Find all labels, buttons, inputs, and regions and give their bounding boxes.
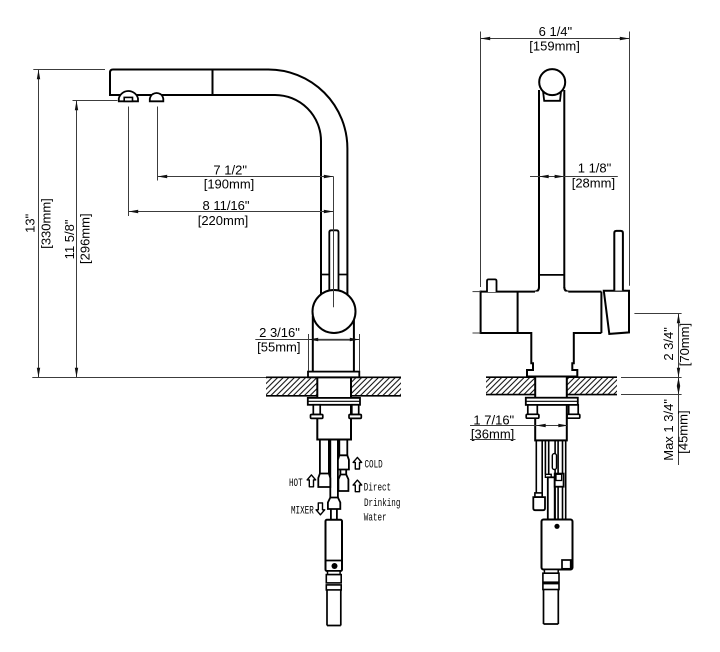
dim 7 1/2 line bbox=[158, 176, 334, 178]
hot hose fitting bbox=[318, 474, 330, 488]
dim 11 5/8 line bbox=[76, 101, 78, 378]
svg-text:[45mm]: [45mm] bbox=[676, 410, 691, 453]
left stud nut (front) bbox=[526, 414, 539, 418]
wand neck (front) bbox=[544, 570, 558, 574]
lower body and flange bbox=[527, 332, 577, 377]
dim 2 3/16 left arrow bbox=[309, 338, 319, 341]
svg-text:13": 13" bbox=[23, 213, 38, 232]
ext line 2 3/4 top bbox=[634, 313, 681, 315]
cold hose fitting bbox=[338, 455, 349, 469]
svg-text:[70mm]: [70mm] bbox=[677, 323, 692, 366]
mounting plates (front) bbox=[526, 398, 578, 405]
spout end ball bbox=[539, 69, 565, 95]
mixer fitting bbox=[328, 498, 340, 510]
dim 13in top arrow bbox=[37, 70, 40, 80]
ext line counter top right bbox=[621, 377, 682, 379]
dim 11 5/8 bottom arrow bbox=[75, 368, 78, 378]
wand tail hose (front) bbox=[544, 590, 559, 625]
mounting plates bbox=[308, 398, 360, 405]
band top line left bbox=[481, 291, 535, 293]
drinking water fitting bbox=[338, 475, 348, 492]
tube center extension line bbox=[333, 177, 335, 308]
dim 6 1/4 ext left bbox=[480, 32, 482, 288]
cross band fill bbox=[481, 292, 629, 333]
aerator bump 1 bbox=[119, 91, 138, 101]
body top seam bbox=[313, 339, 354, 341]
tube-to-body left fillet bbox=[535, 287, 540, 292]
right stud bbox=[352, 405, 359, 415]
left block knob bbox=[487, 279, 497, 292]
counter hatch right piece (front) bbox=[567, 377, 617, 394]
svg-text:1 1/8": 1 1/8" bbox=[578, 161, 612, 176]
counter bottom edge left (front) bbox=[486, 394, 535, 396]
counter hatch left piece bbox=[266, 377, 317, 396]
dim 6 1/4 left arrow bbox=[481, 37, 491, 40]
ball joint bbox=[313, 290, 356, 333]
dim 7 1/2 right arrow bbox=[324, 175, 334, 178]
dim 1 7/16 right arrow bbox=[558, 424, 568, 427]
right fitting notch bbox=[556, 474, 562, 480]
left block left edge bbox=[480, 291, 482, 334]
dim 7 1/2 left arrow bbox=[158, 175, 168, 178]
aerator bump 2 bbox=[150, 93, 164, 101]
dim 11 5/8 extension top bbox=[73, 100, 118, 102]
hose neck bbox=[328, 571, 341, 575]
dim 13in line bbox=[38, 70, 40, 378]
dim 1 7/16 line bbox=[470, 425, 568, 427]
handle joint line bbox=[600, 292, 602, 333]
left stud nut bbox=[311, 415, 323, 419]
plate seam bbox=[308, 400, 360, 402]
left stud bbox=[313, 405, 320, 415]
svg-text:MIXER: MIXER bbox=[291, 504, 314, 517]
handle rod bbox=[614, 231, 623, 291]
handle base bbox=[604, 291, 629, 334]
flange bbox=[308, 372, 359, 378]
dim 11 5/8 top arrow bbox=[75, 101, 78, 111]
svg-text:[159mm]: [159mm] bbox=[529, 39, 580, 54]
dim 1 1/8 right arrow bbox=[555, 175, 565, 178]
mixer hose right wall bbox=[337, 440, 339, 498]
svg-text:HOT: HOT bbox=[289, 477, 303, 490]
dim 1 1/8 tail left bbox=[530, 176, 539, 178]
counter bottom edge left bbox=[266, 395, 317, 397]
bracket bbox=[545, 474, 551, 477]
svg-text:Water: Water bbox=[364, 511, 387, 524]
right fitting lower hose bbox=[555, 487, 558, 520]
bump1 extension line bbox=[128, 107, 130, 217]
svg-text:Direct: Direct bbox=[364, 481, 391, 494]
hose body dot bbox=[332, 563, 338, 569]
shank and housing bbox=[317, 377, 351, 439]
svg-text:Max 1 3/4": Max 1 3/4" bbox=[661, 399, 676, 461]
dim max top arrow bbox=[677, 378, 680, 387]
left fitting cap bbox=[535, 493, 542, 497]
svg-text:[55mm]: [55mm] bbox=[257, 340, 300, 355]
dim 2 3/16 ext left bbox=[308, 334, 310, 371]
block joint line bbox=[517, 292, 519, 333]
dim 13in extension top bbox=[33, 69, 105, 71]
counter top edge bbox=[266, 376, 401, 378]
svg-text:[28mm]: [28mm] bbox=[572, 176, 615, 191]
dim 6 1/4 ext right bbox=[629, 32, 631, 286]
pull-out hose body (left view) bbox=[326, 520, 343, 571]
hose lines under shank bbox=[536, 440, 565, 519]
front tube right wall bbox=[563, 90, 565, 288]
front tube left wall bbox=[538, 90, 540, 288]
cold hose bbox=[339, 440, 347, 456]
dim 6 1/4 right arrow bbox=[620, 37, 630, 40]
svg-text:[296mm]: [296mm] bbox=[78, 213, 93, 264]
counter bottom edge right (front) bbox=[567, 394, 617, 396]
shank (front) bbox=[535, 377, 567, 441]
wand stem bbox=[548, 477, 555, 519]
dim 13in bottom arrow bbox=[37, 368, 40, 378]
tube seam left segment bbox=[321, 274, 329, 276]
spout head bbox=[110, 70, 213, 96]
svg-text:Drinking: Drinking bbox=[364, 497, 400, 510]
hose ring 1 bbox=[326, 575, 341, 583]
dim 8 11/16 right arrow bbox=[324, 210, 334, 213]
dim 36mm underline bbox=[470, 439, 516, 441]
bump2 extension line bbox=[157, 107, 159, 181]
dim 8 11/16 line bbox=[129, 211, 334, 213]
body left wall bbox=[312, 316, 314, 372]
dim 2 3/4 line bbox=[678, 314, 680, 378]
spout tube inner curve bbox=[213, 95, 322, 295]
right stud nut (front) bbox=[567, 414, 580, 418]
band bottom line left bbox=[481, 332, 532, 334]
hose body seam bbox=[326, 560, 343, 562]
dim max line bbox=[678, 378, 680, 466]
left stud (front) bbox=[528, 405, 538, 414]
dim 8 11/16 left arrow bbox=[129, 210, 139, 213]
svg-text:8 11/16": 8 11/16" bbox=[202, 198, 249, 213]
svg-text:COLD: COLD bbox=[365, 458, 383, 471]
counter top edge (front) bbox=[486, 376, 617, 378]
wand body (front) bbox=[542, 520, 573, 570]
hose tail bbox=[327, 590, 341, 626]
dim 6 1/4 line bbox=[481, 38, 630, 40]
dim 2 3/4 top arrow bbox=[677, 314, 680, 324]
label MIXER arrow bbox=[316, 503, 325, 515]
hose ring 2 bbox=[326, 585, 341, 590]
svg-text:11 5/8": 11 5/8" bbox=[62, 219, 77, 259]
label Direct arrow bbox=[353, 480, 362, 492]
mixer hose lower bbox=[331, 509, 337, 520]
svg-text:2 3/4": 2 3/4" bbox=[661, 327, 676, 361]
label HOT arrow bbox=[307, 475, 316, 487]
right stud nut bbox=[349, 415, 361, 419]
counter extension line left bbox=[32, 377, 266, 379]
counter hatch right piece bbox=[351, 377, 401, 396]
dim 2 3/16 right arrow bbox=[350, 338, 360, 341]
wand ring 1 (front) bbox=[543, 573, 559, 582]
clip capsule bbox=[552, 454, 556, 470]
label COLD arrow bbox=[353, 457, 362, 469]
right stud (front) bbox=[569, 405, 579, 414]
wand dot (front) bbox=[554, 524, 559, 529]
dim 1 1/8 line bbox=[539, 176, 618, 178]
counter bottom edge right bbox=[351, 395, 401, 397]
aerator bump 1 slot bbox=[124, 97, 132, 101]
dim 1 7/16 left arrow bbox=[536, 424, 546, 427]
band stub bottom bbox=[473, 332, 481, 334]
hot hose bbox=[320, 440, 329, 474]
body right wall bbox=[353, 320, 355, 372]
wand notch (front) bbox=[562, 560, 571, 569]
spout tube outer curve bbox=[213, 70, 348, 295]
dim 2 3/16 ext right bbox=[359, 334, 361, 371]
svg-text:2 3/16": 2 3/16" bbox=[259, 325, 300, 340]
front tube seam bbox=[539, 274, 564, 276]
band top line right bbox=[568, 291, 601, 293]
tube seam right segment bbox=[339, 274, 348, 276]
svg-text:[220mm]: [220mm] bbox=[198, 213, 249, 228]
dim 2 3/4 bottom arrow bbox=[677, 368, 680, 378]
svg-text:[190mm]: [190mm] bbox=[204, 176, 255, 191]
ext line counter bottom right bbox=[621, 394, 682, 396]
right fitting bbox=[555, 474, 564, 487]
svg-text:6 1/4": 6 1/4" bbox=[539, 24, 573, 39]
band bottom line right bbox=[574, 332, 602, 334]
wand ring 2 (front) bbox=[543, 584, 559, 590]
left fitting body bbox=[533, 497, 545, 510]
plate seam (front) bbox=[526, 400, 578, 402]
dim max bottom arrow bbox=[677, 386, 680, 395]
aerator trapezoid bbox=[543, 90, 561, 101]
band stub top bbox=[473, 291, 481, 293]
mixer hose left wall bbox=[329, 440, 331, 498]
svg-text:[330mm]: [330mm] bbox=[38, 198, 53, 249]
counter hatch left piece (front) bbox=[486, 377, 535, 394]
drinking water hose neck bbox=[340, 470, 346, 475]
handle lever (seen edge-on inside tube) bbox=[329, 230, 338, 292]
dim 1 1/8 left arrow bbox=[539, 175, 549, 178]
tube-to-body right fillet bbox=[564, 287, 569, 292]
dim 2 3/16 line bbox=[255, 339, 359, 341]
